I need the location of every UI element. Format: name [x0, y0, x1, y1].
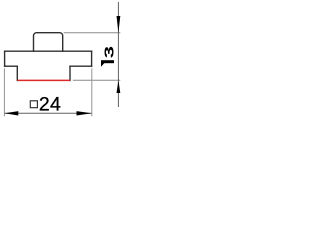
svg-text:24: 24: [39, 93, 61, 115]
svg-text:3: 3: [102, 46, 116, 58]
